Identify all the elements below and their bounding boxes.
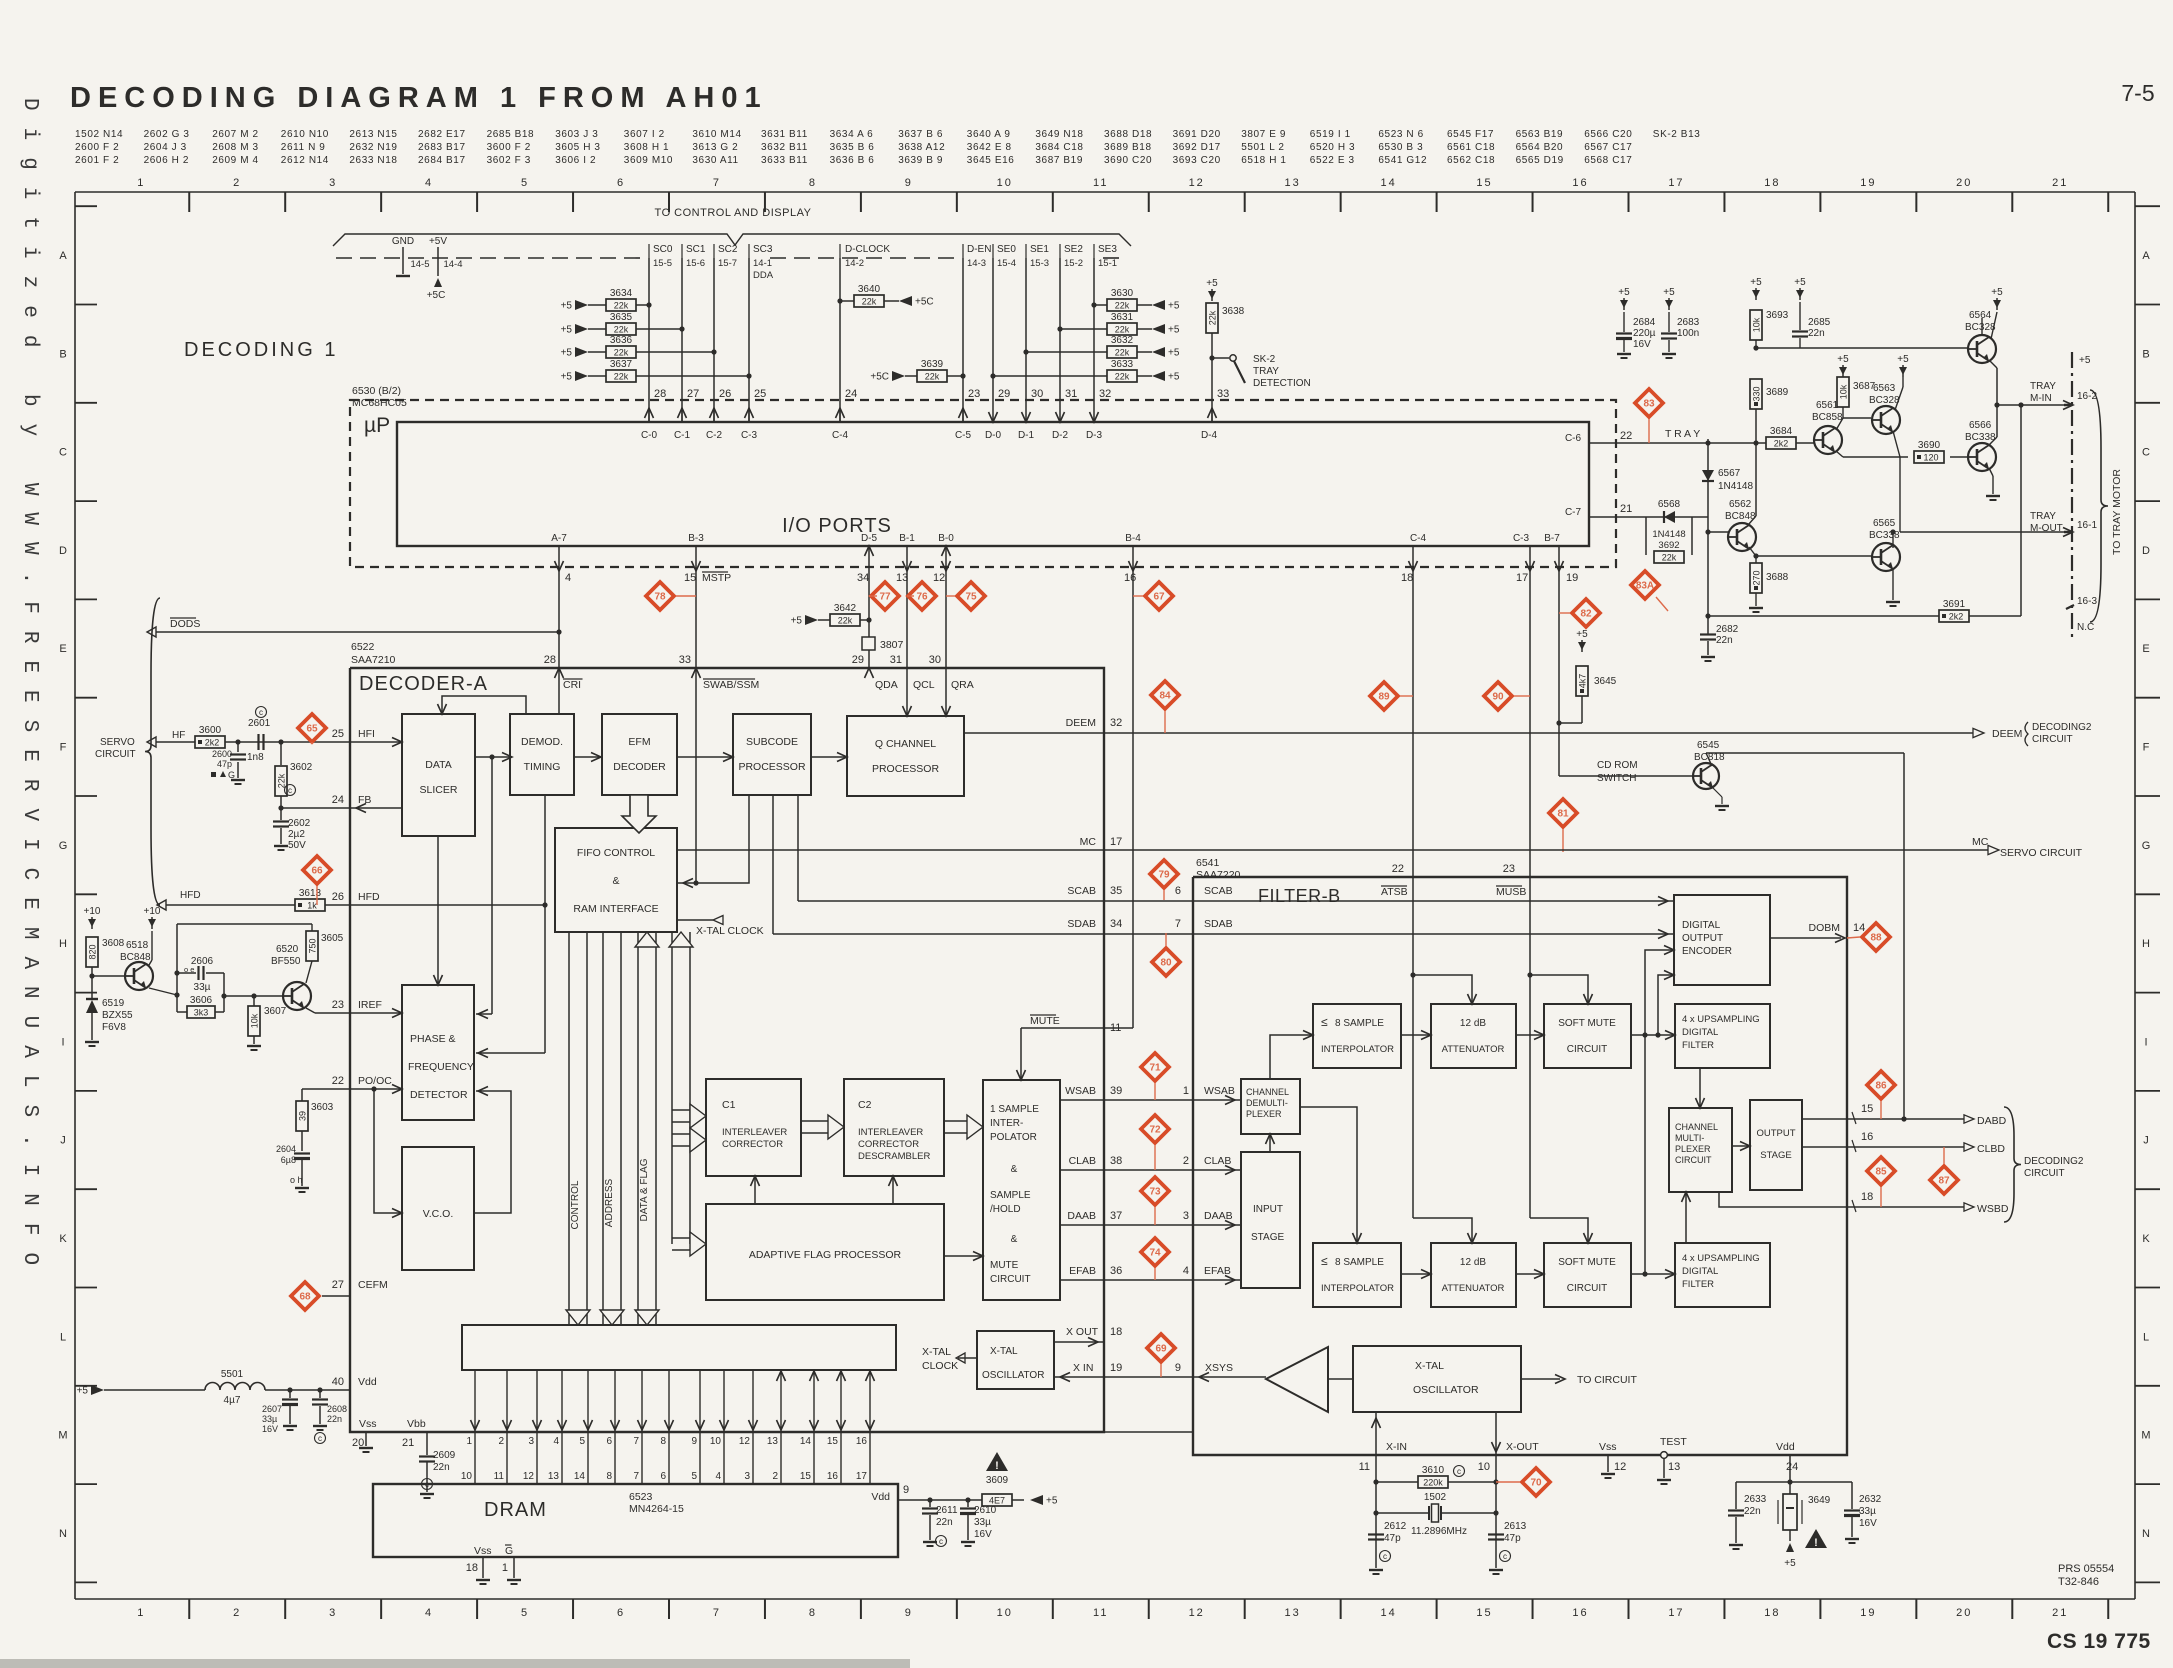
svg-text:47p: 47p bbox=[1504, 1533, 1521, 1544]
svg-text:ATSB: ATSB bbox=[1381, 886, 1408, 898]
svg-text:PHASE &: PHASE & bbox=[410, 1033, 456, 1045]
svg-text:SC2: SC2 bbox=[718, 244, 738, 255]
svg-text:CLAB: CLAB bbox=[1204, 1155, 1231, 1167]
svg-text:INTERLEAVER: INTERLEAVER bbox=[722, 1127, 787, 1138]
svg-text:6520 H 3: 6520 H 3 bbox=[1310, 142, 1355, 153]
svg-text:2611 N 9: 2611 N 9 bbox=[281, 142, 326, 153]
svg-text:2682 E17: 2682 E17 bbox=[418, 129, 466, 140]
svg-text:F6V8: F6V8 bbox=[102, 1022, 126, 1033]
svg-text:BC328: BC328 bbox=[1965, 322, 1996, 333]
svg-text:15: 15 bbox=[1476, 177, 1492, 189]
svg-text:XSYS: XSYS bbox=[1205, 1362, 1233, 1374]
svg-text:BF550: BF550 bbox=[271, 956, 301, 967]
svg-text:39: 39 bbox=[298, 1111, 308, 1121]
svg-text:16-1: 16-1 bbox=[2077, 520, 2097, 531]
svg-text:6562: 6562 bbox=[1729, 499, 1752, 510]
svg-text:FILTER: FILTER bbox=[1682, 1040, 1714, 1051]
svg-text:33: 33 bbox=[679, 654, 691, 666]
svg-text:8: 8 bbox=[660, 1436, 666, 1447]
svg-text:17: 17 bbox=[1110, 836, 1122, 848]
svg-text:3610 M14: 3610 M14 bbox=[692, 129, 741, 140]
svg-text:MC: MC bbox=[1972, 836, 1989, 848]
svg-text:40: 40 bbox=[332, 1376, 344, 1388]
svg-text:1N4148: 1N4148 bbox=[1652, 529, 1685, 540]
svg-text:BC338: BC338 bbox=[1965, 432, 1996, 443]
svg-text:CONTROL: CONTROL bbox=[570, 1180, 581, 1229]
svg-text:3636: 3636 bbox=[610, 335, 633, 346]
svg-text:6563: 6563 bbox=[1873, 383, 1896, 394]
svg-text:!: ! bbox=[995, 1460, 999, 1472]
svg-text:+5: +5 bbox=[1576, 629, 1588, 640]
svg-text:DABD: DABD bbox=[1977, 1115, 2007, 1127]
svg-text:A: A bbox=[2142, 250, 2150, 262]
svg-text:36: 36 bbox=[1110, 1265, 1122, 1277]
svg-text:µP: µP bbox=[364, 414, 390, 437]
svg-text:DEMULTI-: DEMULTI- bbox=[1246, 1098, 1288, 1108]
svg-text:3634 A 6: 3634 A 6 bbox=[830, 129, 874, 140]
svg-text:MC68HC05: MC68HC05 bbox=[352, 397, 407, 409]
svg-text:ATTENUATOR: ATTENUATOR bbox=[1442, 1283, 1505, 1294]
svg-text:29: 29 bbox=[998, 388, 1010, 400]
svg-text:B-7: B-7 bbox=[1544, 533, 1560, 544]
svg-text:3605: 3605 bbox=[321, 933, 344, 944]
svg-text:CIRCUIT: CIRCUIT bbox=[2024, 1168, 2065, 1179]
svg-text:16V: 16V bbox=[1859, 1518, 1877, 1529]
svg-text:CORRECTOR: CORRECTOR bbox=[722, 1139, 783, 1150]
svg-text:SOFT MUTE: SOFT MUTE bbox=[1558, 1018, 1616, 1029]
svg-text:INTERPOLATOR: INTERPOLATOR bbox=[1321, 1044, 1394, 1055]
svg-text:12: 12 bbox=[1614, 1461, 1626, 1473]
svg-text:9: 9 bbox=[1175, 1362, 1181, 1374]
svg-text:≤: ≤ bbox=[1321, 1015, 1328, 1029]
svg-text:23: 23 bbox=[968, 388, 980, 400]
svg-text:2684: 2684 bbox=[1633, 317, 1656, 328]
svg-text:3807: 3807 bbox=[880, 639, 904, 651]
svg-text:BC858: BC858 bbox=[1812, 412, 1843, 423]
svg-text:T R A Y: T R A Y bbox=[1665, 428, 1700, 440]
svg-text:D-0: D-0 bbox=[985, 430, 1002, 441]
svg-text:80: 80 bbox=[1160, 958, 1172, 969]
svg-text:Q CHANNEL: Q CHANNEL bbox=[875, 738, 936, 750]
svg-text:14-3: 14-3 bbox=[967, 258, 986, 269]
svg-text:270: 270 bbox=[1752, 570, 1762, 585]
svg-text:31: 31 bbox=[1065, 388, 1077, 400]
svg-text:C-1: C-1 bbox=[674, 430, 691, 441]
svg-text:6: 6 bbox=[617, 1607, 625, 1619]
svg-text:DATA & FLAG: DATA & FLAG bbox=[639, 1158, 650, 1221]
svg-text:G: G bbox=[228, 770, 235, 780]
svg-text:C-4: C-4 bbox=[832, 430, 849, 441]
svg-text:6: 6 bbox=[1175, 885, 1181, 897]
svg-text:2: 2 bbox=[233, 1607, 241, 1619]
svg-text:ADDRESS: ADDRESS bbox=[604, 1179, 615, 1228]
svg-text:C-2: C-2 bbox=[706, 430, 723, 441]
svg-text:33µ: 33µ bbox=[262, 1414, 277, 1424]
svg-text:+5: +5 bbox=[1794, 277, 1806, 288]
svg-text:1502: 1502 bbox=[1424, 1492, 1447, 1503]
svg-text:3693 C20: 3693 C20 bbox=[1173, 155, 1221, 166]
svg-text:STAGE: STAGE bbox=[1251, 1232, 1284, 1243]
svg-text:2612: 2612 bbox=[1384, 1521, 1407, 1532]
svg-text:4µ7: 4µ7 bbox=[224, 1395, 241, 1406]
svg-text:11.2896MHz: 11.2896MHz bbox=[1411, 1526, 1467, 1537]
svg-text:IREF: IREF bbox=[358, 999, 382, 1011]
svg-text:SCAB: SCAB bbox=[1067, 885, 1096, 897]
svg-text:4: 4 bbox=[425, 177, 433, 189]
svg-text:2613 N15: 2613 N15 bbox=[349, 129, 397, 140]
svg-text:CRI: CRI bbox=[563, 679, 581, 691]
svg-text:SC1: SC1 bbox=[686, 244, 706, 255]
svg-text:B-1: B-1 bbox=[899, 533, 915, 544]
svg-text:DECODING DIAGRAM 1 FROM AH01: DECODING DIAGRAM 1 FROM AH01 bbox=[70, 82, 768, 114]
svg-text:C-5: C-5 bbox=[955, 430, 972, 441]
svg-text:2604: 2604 bbox=[276, 1144, 296, 1154]
svg-text:2600: 2600 bbox=[212, 749, 232, 759]
svg-text:14: 14 bbox=[574, 1471, 586, 1482]
svg-text:35: 35 bbox=[1110, 885, 1122, 897]
svg-text:2602: 2602 bbox=[288, 818, 311, 829]
svg-text:22k: 22k bbox=[614, 372, 629, 382]
svg-text:2606 H 2: 2606 H 2 bbox=[144, 155, 189, 166]
svg-text:FILTER-B: FILTER-B bbox=[1258, 886, 1341, 906]
svg-text:25: 25 bbox=[754, 388, 766, 400]
svg-text:c: c bbox=[939, 1537, 943, 1546]
svg-text:B: B bbox=[59, 348, 66, 360]
svg-text:7: 7 bbox=[713, 177, 721, 189]
svg-text:G: G bbox=[505, 1545, 513, 1557]
svg-text:CIRCUIT: CIRCUIT bbox=[1567, 1044, 1608, 1055]
svg-text:3602 F 3: 3602 F 3 bbox=[487, 155, 531, 166]
svg-text:2633 N18: 2633 N18 bbox=[349, 155, 397, 166]
svg-text:3691 D20: 3691 D20 bbox=[1173, 129, 1221, 140]
svg-text:B-0: B-0 bbox=[938, 533, 954, 544]
svg-text:PLEXER: PLEXER bbox=[1246, 1109, 1282, 1119]
svg-text:16V: 16V bbox=[1633, 339, 1651, 350]
svg-text:6561 C18: 6561 C18 bbox=[1447, 142, 1495, 153]
svg-text:o h: o h bbox=[290, 1175, 303, 1185]
svg-text:30: 30 bbox=[929, 654, 941, 666]
svg-text:220µ: 220µ bbox=[1633, 328, 1656, 339]
svg-text:30: 30 bbox=[1031, 388, 1043, 400]
svg-text:3649 N18: 3649 N18 bbox=[1035, 129, 1083, 140]
svg-text:74: 74 bbox=[1149, 1248, 1161, 1259]
svg-text:3603 J 3: 3603 J 3 bbox=[555, 129, 598, 140]
svg-text:SAA7210: SAA7210 bbox=[351, 654, 396, 666]
svg-text:SK-2: SK-2 bbox=[1253, 354, 1276, 365]
svg-text:2683 B17: 2683 B17 bbox=[418, 142, 466, 153]
svg-text:B-3: B-3 bbox=[688, 533, 704, 544]
svg-text:10: 10 bbox=[997, 177, 1013, 189]
svg-text:3: 3 bbox=[329, 177, 337, 189]
svg-text:10k: 10k bbox=[1839, 384, 1849, 399]
svg-text:16: 16 bbox=[1861, 1131, 1873, 1143]
svg-text:1k: 1k bbox=[307, 901, 317, 911]
svg-text:+5: +5 bbox=[1168, 348, 1180, 359]
svg-text:+5: +5 bbox=[1837, 354, 1849, 365]
svg-text:3645: 3645 bbox=[1594, 676, 1617, 687]
svg-text:12: 12 bbox=[1189, 1607, 1205, 1619]
svg-text:13: 13 bbox=[767, 1436, 779, 1447]
svg-text:DRAM: DRAM bbox=[484, 1499, 547, 1521]
svg-text:67: 67 bbox=[1153, 592, 1165, 603]
svg-text:6567 C17: 6567 C17 bbox=[1584, 142, 1632, 153]
svg-text:BC328: BC328 bbox=[1869, 395, 1900, 406]
svg-text:Vdd: Vdd bbox=[1776, 1441, 1795, 1453]
svg-text:22n: 22n bbox=[1808, 328, 1825, 339]
svg-text:X-IN: X-IN bbox=[1386, 1441, 1407, 1453]
svg-text:DECODING2: DECODING2 bbox=[2032, 722, 2092, 733]
svg-text:+5C: +5C bbox=[915, 297, 934, 308]
svg-text:SE0: SE0 bbox=[997, 244, 1016, 255]
svg-text:12 dB: 12 dB bbox=[1460, 1018, 1486, 1029]
svg-text:2600 F 2: 2600 F 2 bbox=[75, 142, 119, 153]
svg-text:+5: +5 bbox=[561, 372, 573, 383]
svg-text:POLATOR: POLATOR bbox=[990, 1132, 1037, 1143]
svg-text:13: 13 bbox=[1285, 177, 1301, 189]
svg-text:22k: 22k bbox=[1208, 310, 1218, 325]
svg-text:2633: 2633 bbox=[1744, 1494, 1767, 1505]
svg-text:18: 18 bbox=[1764, 1607, 1780, 1619]
svg-text:SE3: SE3 bbox=[1098, 244, 1117, 255]
svg-text:7: 7 bbox=[633, 1471, 639, 1482]
svg-text:c: c bbox=[1457, 1467, 1461, 1476]
svg-text:34: 34 bbox=[1110, 918, 1122, 930]
svg-text:3637 B 6: 3637 B 6 bbox=[898, 129, 943, 140]
svg-text:3638 A12: 3638 A12 bbox=[898, 142, 945, 153]
svg-text:69: 69 bbox=[1155, 1344, 1167, 1355]
svg-text:13: 13 bbox=[1668, 1461, 1680, 1473]
svg-text:20: 20 bbox=[1956, 1607, 1972, 1619]
svg-text:75: 75 bbox=[965, 592, 977, 603]
svg-text:J: J bbox=[60, 1135, 66, 1147]
svg-text:X OUT: X OUT bbox=[1066, 1326, 1099, 1338]
svg-text:M: M bbox=[2141, 1430, 2150, 1442]
svg-text:C-4: C-4 bbox=[1410, 533, 1427, 544]
svg-text:3639: 3639 bbox=[921, 359, 944, 370]
svg-text:+5: +5 bbox=[1991, 287, 2003, 298]
svg-text:DIGITAL: DIGITAL bbox=[1682, 1266, 1718, 1277]
svg-text:2611: 2611 bbox=[936, 1505, 958, 1516]
svg-text:22k: 22k bbox=[277, 773, 287, 788]
svg-text:11: 11 bbox=[1359, 1461, 1370, 1473]
svg-text:22k: 22k bbox=[1115, 348, 1130, 358]
svg-text:3692: 3692 bbox=[1658, 540, 1679, 551]
svg-text:3692 D17: 3692 D17 bbox=[1173, 142, 1221, 153]
svg-text:3687: 3687 bbox=[1853, 381, 1876, 392]
svg-text:PRS 05554: PRS 05554 bbox=[2058, 1563, 2114, 1575]
svg-text:14: 14 bbox=[800, 1436, 812, 1447]
svg-text:CIRCUIT: CIRCUIT bbox=[1675, 1155, 1712, 1165]
svg-text:6523: 6523 bbox=[629, 1491, 653, 1503]
svg-text:5: 5 bbox=[521, 177, 529, 189]
svg-text:2610 N10: 2610 N10 bbox=[281, 129, 329, 140]
svg-text:+10: +10 bbox=[84, 906, 101, 917]
svg-text:DEEM: DEEM bbox=[1066, 717, 1096, 729]
svg-text:2: 2 bbox=[233, 177, 241, 189]
svg-text:220k: 220k bbox=[1423, 1478, 1443, 1488]
svg-text:!: ! bbox=[1814, 1537, 1818, 1549]
svg-text:+5: +5 bbox=[1168, 325, 1180, 336]
svg-text:4: 4 bbox=[715, 1471, 721, 1482]
svg-text:+5: +5 bbox=[1897, 354, 1909, 365]
svg-text:SAMPLE: SAMPLE bbox=[990, 1190, 1031, 1201]
svg-text:HFI: HFI bbox=[358, 728, 375, 740]
svg-text:2685 B18: 2685 B18 bbox=[487, 129, 535, 140]
svg-text:TRAY: TRAY bbox=[2030, 511, 2056, 522]
svg-text:3613 G 2: 3613 G 2 bbox=[692, 142, 738, 153]
svg-text:3687 B19: 3687 B19 bbox=[1035, 155, 1083, 166]
svg-text:79: 79 bbox=[1158, 870, 1170, 881]
svg-text:2609 M 4: 2609 M 4 bbox=[212, 155, 259, 166]
svg-text:+5: +5 bbox=[561, 325, 573, 336]
svg-text:88: 88 bbox=[1870, 933, 1882, 944]
svg-text:2613: 2613 bbox=[1504, 1521, 1527, 1532]
svg-text:CHANNEL: CHANNEL bbox=[1246, 1087, 1289, 1097]
svg-text:HF: HF bbox=[172, 730, 185, 741]
svg-text:1: 1 bbox=[502, 1562, 508, 1574]
svg-text:2685: 2685 bbox=[1808, 317, 1831, 328]
svg-text:J: J bbox=[2143, 1135, 2149, 1147]
svg-text:29: 29 bbox=[852, 654, 864, 666]
svg-text:SE2: SE2 bbox=[1064, 244, 1083, 255]
svg-text:9: 9 bbox=[905, 1607, 913, 1619]
svg-text:2k2: 2k2 bbox=[205, 738, 220, 748]
svg-text:DDA: DDA bbox=[753, 270, 774, 281]
svg-text:6562 C18: 6562 C18 bbox=[1447, 155, 1495, 166]
svg-text:3640: 3640 bbox=[858, 284, 881, 295]
svg-text:N: N bbox=[59, 1528, 67, 1540]
svg-text:H: H bbox=[2142, 938, 2150, 950]
svg-text:Digitized by WWW.FREESERVICEMA: Digitized by WWW.FREESERVICEMANUALS.INFO bbox=[18, 98, 41, 1282]
svg-text:15: 15 bbox=[1861, 1103, 1873, 1115]
svg-text:C2: C2 bbox=[858, 1099, 872, 1111]
svg-text:D-CLOCK: D-CLOCK bbox=[845, 244, 890, 255]
svg-text:BZX55: BZX55 bbox=[102, 1010, 133, 1021]
svg-text:2608 M 3: 2608 M 3 bbox=[212, 142, 259, 153]
svg-text:X IN: X IN bbox=[1073, 1362, 1093, 1374]
svg-text:6564 B20: 6564 B20 bbox=[1516, 142, 1564, 153]
svg-text:22k: 22k bbox=[1115, 301, 1130, 311]
svg-text:3: 3 bbox=[528, 1436, 534, 1447]
svg-text:28: 28 bbox=[544, 654, 556, 666]
svg-text:DIGITAL: DIGITAL bbox=[1682, 1027, 1718, 1038]
svg-text:6518: 6518 bbox=[126, 940, 149, 951]
svg-text:CIRCUIT: CIRCUIT bbox=[990, 1274, 1031, 1285]
svg-text:6: 6 bbox=[660, 1471, 666, 1482]
svg-text:DAAB: DAAB bbox=[1204, 1210, 1233, 1222]
svg-text:19: 19 bbox=[1110, 1362, 1122, 1374]
svg-text:MN4264-15: MN4264-15 bbox=[629, 1503, 684, 1515]
svg-text:DAAB: DAAB bbox=[1067, 1210, 1096, 1222]
svg-text:13: 13 bbox=[1285, 1607, 1301, 1619]
svg-text:DETECTION: DETECTION bbox=[1253, 378, 1311, 389]
svg-text:22: 22 bbox=[1392, 863, 1404, 875]
svg-text:/HOLD: /HOLD bbox=[990, 1204, 1021, 1215]
svg-text:SE1: SE1 bbox=[1030, 244, 1049, 255]
svg-text:L: L bbox=[60, 1331, 66, 1343]
svg-text:25: 25 bbox=[332, 728, 344, 740]
svg-text:+5: +5 bbox=[1168, 301, 1180, 312]
svg-text:DIGITAL: DIGITAL bbox=[1682, 920, 1721, 931]
svg-text:3632: 3632 bbox=[1111, 335, 1134, 346]
svg-text:+5: +5 bbox=[1168, 372, 1180, 383]
svg-text:71: 71 bbox=[1149, 1063, 1161, 1074]
svg-text:89: 89 bbox=[1378, 692, 1390, 703]
svg-text:3635: 3635 bbox=[610, 312, 633, 323]
svg-text:Vdd: Vdd bbox=[358, 1376, 377, 1388]
svg-text:ENCODER: ENCODER bbox=[1682, 946, 1732, 957]
svg-text:6519 I 1: 6519 I 1 bbox=[1310, 129, 1351, 140]
svg-text:+5C: +5C bbox=[427, 290, 446, 301]
svg-text:26: 26 bbox=[719, 388, 731, 400]
svg-text:+10: +10 bbox=[144, 906, 161, 917]
svg-text:73: 73 bbox=[1149, 1187, 1161, 1198]
svg-text:3600: 3600 bbox=[199, 725, 222, 736]
svg-text:6µ8: 6µ8 bbox=[281, 1155, 296, 1165]
svg-text:3613: 3613 bbox=[299, 888, 322, 899]
svg-text:TRAY: TRAY bbox=[2030, 381, 2056, 392]
svg-text:12: 12 bbox=[933, 572, 945, 584]
svg-text:38: 38 bbox=[1110, 1155, 1122, 1167]
svg-text:16: 16 bbox=[1572, 1607, 1588, 1619]
svg-text:A-7: A-7 bbox=[551, 533, 567, 544]
svg-text:3603: 3603 bbox=[311, 1102, 334, 1113]
svg-text:5501 L 2: 5501 L 2 bbox=[1241, 142, 1284, 153]
svg-text:9: 9 bbox=[905, 177, 913, 189]
svg-text:DECODING 1: DECODING 1 bbox=[184, 339, 338, 361]
svg-text:820: 820 bbox=[88, 944, 98, 959]
svg-text:2k2: 2k2 bbox=[1949, 612, 1964, 622]
svg-text:DEEM: DEEM bbox=[1992, 728, 2022, 740]
svg-text:CD ROM: CD ROM bbox=[1597, 760, 1638, 771]
svg-text:TO CIRCUIT: TO CIRCUIT bbox=[1577, 1374, 1637, 1386]
svg-text:22k: 22k bbox=[614, 325, 629, 335]
svg-text:4: 4 bbox=[425, 1607, 433, 1619]
svg-text:22n: 22n bbox=[1716, 635, 1733, 646]
svg-text:SLICER: SLICER bbox=[420, 784, 458, 796]
svg-text:3631: 3631 bbox=[1111, 312, 1134, 323]
svg-text:3684: 3684 bbox=[1770, 426, 1793, 437]
svg-text:50V: 50V bbox=[288, 840, 306, 851]
svg-text:9: 9 bbox=[691, 1436, 697, 1447]
svg-text:FIFO CONTROL: FIFO CONTROL bbox=[577, 847, 655, 859]
svg-text:+5: +5 bbox=[791, 616, 803, 627]
svg-text:6565 D19: 6565 D19 bbox=[1516, 155, 1564, 166]
svg-text:+5V: +5V bbox=[429, 236, 447, 247]
svg-text:15-5: 15-5 bbox=[653, 258, 672, 269]
svg-text:3631 B11: 3631 B11 bbox=[761, 129, 808, 140]
svg-text:5: 5 bbox=[521, 1607, 529, 1619]
svg-text:X-TAL: X-TAL bbox=[1415, 1360, 1444, 1372]
svg-text:86: 86 bbox=[1875, 1081, 1887, 1092]
svg-text:3640 A 9: 3640 A 9 bbox=[967, 129, 1011, 140]
svg-text:SCAB: SCAB bbox=[1204, 885, 1233, 897]
svg-text:10k: 10k bbox=[1752, 317, 1762, 332]
svg-text:3608 H 1: 3608 H 1 bbox=[624, 142, 669, 153]
svg-text:E: E bbox=[59, 643, 66, 655]
svg-text:3: 3 bbox=[329, 1607, 337, 1619]
svg-text:+5: +5 bbox=[1784, 1558, 1796, 1569]
svg-text:3642: 3642 bbox=[834, 603, 857, 614]
svg-text:33µ: 33µ bbox=[1859, 1506, 1876, 1517]
svg-text:27: 27 bbox=[687, 388, 699, 400]
svg-text:ADAPTIVE FLAG PROCESSOR: ADAPTIVE FLAG PROCESSOR bbox=[749, 1249, 902, 1261]
svg-text:2608: 2608 bbox=[327, 1404, 347, 1414]
svg-text:4 x UPSAMPLING: 4 x UPSAMPLING bbox=[1682, 1014, 1760, 1025]
svg-text:330: 330 bbox=[1752, 386, 1762, 401]
svg-text:16: 16 bbox=[1124, 572, 1136, 584]
svg-text:+5: +5 bbox=[1618, 287, 1630, 298]
